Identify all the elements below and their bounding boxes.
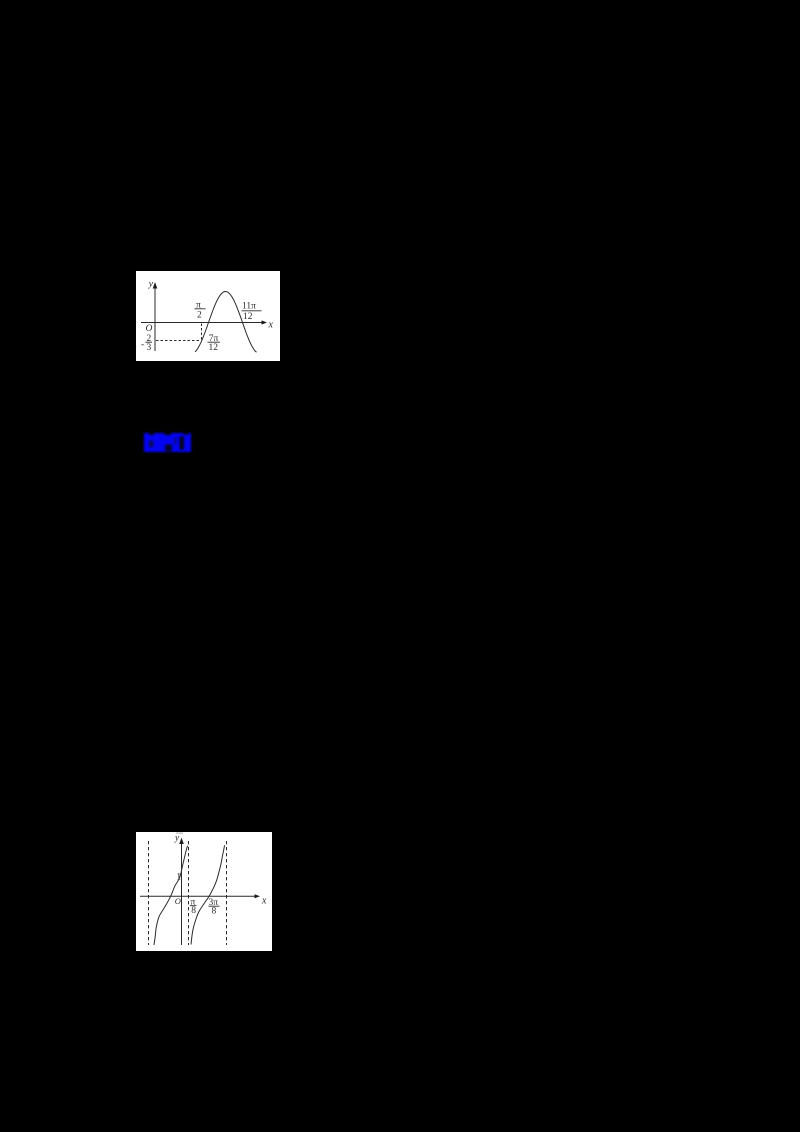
x-axis arrowhead <box>255 894 261 898</box>
svg-text:x: x <box>268 320 274 331</box>
svg-text:y: y <box>174 834 180 844</box>
y-axis <box>154 285 156 351</box>
svg-text:11π: 11π <box>242 302 256 312</box>
blue highlighted label <box>144 433 191 452</box>
svg-text:O: O <box>146 324 153 334</box>
x-axis <box>140 895 256 897</box>
svg-text:8: 8 <box>191 906 196 916</box>
svg-text:y: y <box>148 279 154 289</box>
dashed horizontal at -2/3 <box>156 340 201 342</box>
figure 2: tangent graph box <box>136 832 272 951</box>
dashed asymptote left <box>148 841 150 945</box>
tangent branch left <box>154 846 188 945</box>
y-axis <box>181 841 183 945</box>
dashed vertical at pi/2 <box>201 324 203 341</box>
sine curve <box>195 292 257 353</box>
figure 1: sine graph box <box>136 271 280 361</box>
tangent branch right <box>191 845 225 944</box>
y-axis arrowhead <box>153 282 158 289</box>
x-axis <box>141 322 263 324</box>
svg-text:-: - <box>141 340 144 350</box>
svg-text:8: 8 <box>212 907 217 917</box>
dashed asymptote middle <box>188 841 190 945</box>
svg-text:2: 2 <box>197 311 202 321</box>
svg-text:x: x <box>261 895 267 906</box>
y-axis arrowhead <box>179 838 184 845</box>
x-axis arrowhead <box>262 320 268 324</box>
dashed asymptote right <box>226 841 228 945</box>
svg-text:3: 3 <box>147 343 152 353</box>
svg-text:O: O <box>175 896 181 906</box>
svg-text:12: 12 <box>209 343 219 353</box>
faint top mark <box>176 833 183 834</box>
svg-text:12: 12 <box>243 312 253 322</box>
svg-text:1: 1 <box>176 872 181 883</box>
